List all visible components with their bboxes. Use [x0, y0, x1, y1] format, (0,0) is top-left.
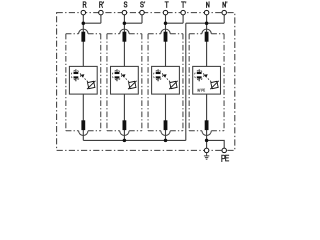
terminal R — [81, 10, 86, 15]
spark gap F3: upper electrode — [156, 72, 161, 74]
module U2: boundary hop arc under wire (bottom) — [120, 131, 129, 136]
module U3: boundary hop arc over wire (top) — [161, 29, 170, 34]
node: junction dot on N-rail bus — [164, 139, 168, 143]
trigger varistor RV2: tilted square body — [129, 81, 136, 88]
node: junction dot N top — [205, 21, 209, 25]
trigger varistor RV3: diagonal stroke — [169, 81, 177, 89]
module U1: boundary hop arc under wire (bottom) — [79, 131, 88, 136]
module U2 (S protection path) plug-in boundary box (dash-dot) — [107, 34, 142, 131]
terminal T — [163, 10, 168, 15]
spark gap F4: dashed gas-tube envelope — [195, 71, 204, 80]
spark gap F4: upper feed stub — [198, 69, 200, 72]
wire: vertical main conductor R down through module 1 — [82, 13, 84, 141]
spark gap F2: upper electrode — [115, 72, 120, 74]
node: junction dot module 4 bottom (PE net) — [205, 139, 209, 143]
module U4: SPD symbol box F4 — [193, 66, 221, 94]
trigger varistor RV1: diagonal stroke — [87, 81, 95, 89]
trigger arrow F3: dashed control line from varistor — [166, 77, 170, 81]
wire: PE run from module 4 bottom junction to PE terminal — [207, 140, 225, 150]
module U2: top plug-in contact blade — [123, 32, 127, 42]
terminal S — [122, 10, 127, 15]
label prime tick for S&apos; — [144, 1, 146, 3]
wire: vertical main conductor S down through module 2 — [123, 13, 125, 141]
module U4: bottom plug-in contact blade — [205, 120, 209, 130]
spark gap F1: dashed gas-tube envelope — [71, 71, 80, 80]
terminal: earth — [204, 148, 209, 153]
module U3: SPD symbol box F3 — [152, 66, 180, 94]
trigger arrow F3: arrowhead pointing at spark gap — [163, 74, 167, 78]
spark gap F1: lower feed stub — [75, 79, 77, 82]
node: junction dot R top — [82, 21, 86, 25]
spark gap F2: upper feed stub — [116, 69, 118, 72]
node: junction dot S top — [123, 21, 127, 25]
module U4: boundary hop arc under wire (bottom) — [202, 131, 211, 136]
module U4: boundary hop arc over wire (top) — [202, 29, 211, 34]
spark gap F3: lower feed stub — [157, 79, 159, 82]
wire: horizontal link N junction to N&apos; stub — [207, 22, 225, 24]
trigger varistor RV3: tilted square body — [170, 81, 177, 88]
spark gap F2: dashed gas-tube envelope — [112, 71, 121, 80]
label terminal N&apos; — [223, 2, 226, 8]
module U3: boundary hop arc under wire (bottom) — [161, 131, 170, 136]
label PE — [222, 155, 225, 161]
spark gap F4: lower electrode — [197, 76, 202, 78]
terminal R&apos; — [99, 10, 104, 15]
terminal S&apos; — [140, 10, 145, 15]
trigger varistor RV1: tilted square body — [88, 81, 95, 88]
wire: vertical main conductor N down through module 4 — [206, 13, 208, 151]
wire: vertical main conductor T down through module 3 — [165, 13, 167, 141]
label terminal S — [124, 2, 127, 7]
label terminal T&apos; — [182, 2, 185, 8]
module U2: SPD symbol box F2 — [111, 66, 139, 94]
trigger arrow F4: dashed control line from varistor — [207, 77, 211, 81]
terminal N&apos; — [222, 10, 227, 15]
trigger arrow F2: dashed control line from varistor — [125, 77, 129, 81]
trigger arrow F1: dashed control line from varistor — [84, 77, 88, 81]
wire: N-rail top run to N junction — [186, 22, 207, 24]
spark gap F4: lower feed stub — [198, 79, 200, 82]
spark gap F3: upper feed stub — [157, 69, 159, 72]
trigger varistor RV4: tilted square body — [211, 81, 218, 88]
node: junction dot T top — [164, 21, 168, 25]
module U2: boundary hop arc over wire (top) — [120, 29, 129, 34]
module U2: bottom plug-in contact blade — [123, 120, 127, 130]
ground symbol below earth terminal — [204, 153, 209, 160]
module U1 (R protection path) plug-in boundary box (dash-dot) — [66, 34, 101, 131]
wire: internal N-rail bus from module 1 bottom along y=140 — [83, 139, 186, 141]
module U4 label: N/PE spark gap designation — [198, 89, 199, 92]
label terminal T — [165, 2, 168, 8]
module U3: bottom plug-in contact blade — [164, 120, 168, 130]
trigger arrow F2: arrowhead pointing at spark gap — [122, 74, 126, 78]
module U1: bottom plug-in contact blade — [81, 120, 85, 130]
label prime tick for T&apos; — [185, 1, 187, 3]
spark gap F2: lower feed stub — [116, 79, 118, 82]
module U1: top plug-in contact blade — [81, 32, 85, 42]
trigger varistor RV2: diagonal stroke — [128, 81, 136, 89]
spark gap F3: dashed gas-tube envelope — [153, 71, 162, 80]
trigger arrow F1: arrowhead pointing at spark gap — [80, 74, 84, 78]
wire: N&apos; stub down to junction — [223, 13, 225, 24]
spark gap F1: upper feed stub — [75, 69, 77, 72]
terminal N — [204, 10, 209, 15]
trigger arrow F4: arrowhead pointing at spark gap — [204, 74, 208, 78]
wire: horizontal link R junction to R&apos; stub — [83, 22, 101, 24]
spark gap F4: upper electrode — [197, 72, 202, 74]
terminal T&apos; — [181, 10, 186, 15]
terminal: PE — [222, 148, 227, 153]
wire: S&apos; stub down to junction — [141, 13, 143, 24]
spark gap F1: upper electrode — [74, 72, 79, 74]
label terminal R — [83, 2, 86, 8]
module U4: top plug-in contact blade — [205, 32, 209, 42]
label terminal S&apos; — [141, 2, 144, 7]
node: junction dot on N-rail bus — [123, 139, 127, 143]
wire: R&apos; stub down to junction — [100, 13, 102, 24]
module U1: SPD symbol box F1 — [69, 66, 97, 94]
enclosure: outer device boundary (dash-dot) — [57, 13, 235, 151]
wire: T&apos; stub down to junction — [182, 13, 184, 24]
module U3: top plug-in contact blade — [164, 32, 168, 42]
module U3 (T protection path) plug-in boundary box (dash-dot) — [148, 34, 183, 131]
label terminal R&apos; — [100, 2, 103, 8]
label prime tick for N&apos; — [226, 1, 228, 3]
label terminal N — [207, 2, 210, 8]
spark gap F1: lower electrode — [74, 76, 79, 78]
label prime tick for R&apos; — [102, 1, 104, 3]
spark gap F3: lower electrode — [156, 76, 161, 78]
wire: horizontal link S junction to S&apos; stub — [124, 22, 142, 24]
wire: N-rail riser up between module 3 and 4 — [185, 23, 187, 140]
wire: horizontal link T junction to T&apos; stub — [166, 22, 184, 24]
module U4 (N protection path) plug-in boundary box (dash-dot) — [189, 34, 224, 131]
trigger varistor RV4: diagonal stroke — [210, 81, 218, 89]
spark gap F2: lower electrode — [115, 76, 120, 78]
module U1: boundary hop arc over wire (top) — [79, 29, 88, 34]
